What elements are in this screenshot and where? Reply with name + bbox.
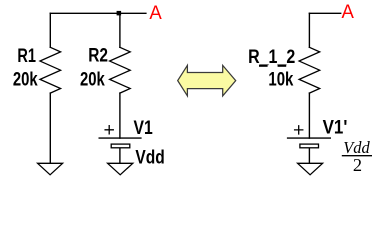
wire R_1_2 bottom vertical bbox=[308, 93, 310, 138]
svg-text:20k: 20k bbox=[13, 69, 38, 90]
junction dot node A left bbox=[117, 11, 122, 16]
svg-text:2: 2 bbox=[353, 155, 362, 175]
voltage source V1 battery long plate bbox=[99, 137, 141, 139]
svg-text:R2: R2 bbox=[88, 46, 108, 67]
svg-text:20k: 20k bbox=[80, 69, 105, 90]
voltage source V1 plus sign bbox=[105, 126, 113, 134]
wire V1' bottom stub bbox=[308, 149, 310, 164]
svg-text:V1': V1' bbox=[323, 118, 348, 139]
fraction bar bbox=[342, 155, 372, 157]
voltage source V1' plus sign bbox=[295, 126, 303, 134]
svg-text:Vdd: Vdd bbox=[135, 148, 164, 169]
wire top horizontal left circuit bbox=[50, 12, 146, 14]
resistor R1 bbox=[40, 47, 61, 93]
svg-text:A: A bbox=[149, 3, 162, 24]
wire R_1_2 top vertical bbox=[308, 13, 310, 47]
svg-text:R_1_2: R_1_2 bbox=[248, 47, 295, 68]
resistor R_1_2 bbox=[299, 47, 320, 93]
svg-text:R1: R1 bbox=[17, 46, 36, 67]
ground under V1 bbox=[108, 163, 133, 175]
source V1' value fraction Vdd/2 bbox=[342, 138, 372, 175]
R_1_2 underscore bar 2 bbox=[278, 65, 287, 67]
equivalence arrow (double headed, yellow) bbox=[178, 65, 236, 96]
svg-text:V1: V1 bbox=[133, 118, 153, 139]
wire R1 bottom vertical bbox=[49, 93, 51, 163]
wire R1 top vertical bbox=[49, 13, 51, 47]
wire R2 bottom vertical bbox=[119, 93, 121, 138]
ground under R1 bbox=[38, 163, 63, 175]
ground under V1' bbox=[298, 163, 323, 175]
voltage source V1' battery long plate bbox=[288, 137, 331, 139]
wire R2 top vertical bbox=[119, 13, 121, 47]
wire V1 bottom stub bbox=[119, 149, 121, 164]
svg-text:10k: 10k bbox=[268, 70, 293, 91]
voltage source V1 battery short plate box bbox=[111, 144, 130, 148]
voltage source V1' battery short plate box bbox=[300, 144, 319, 148]
R_1_2 underscore bar 1 bbox=[259, 65, 268, 67]
svg-text:A: A bbox=[341, 2, 354, 23]
wire top right circuit horizontal bbox=[309, 12, 340, 14]
resistor R2 bbox=[110, 47, 131, 93]
